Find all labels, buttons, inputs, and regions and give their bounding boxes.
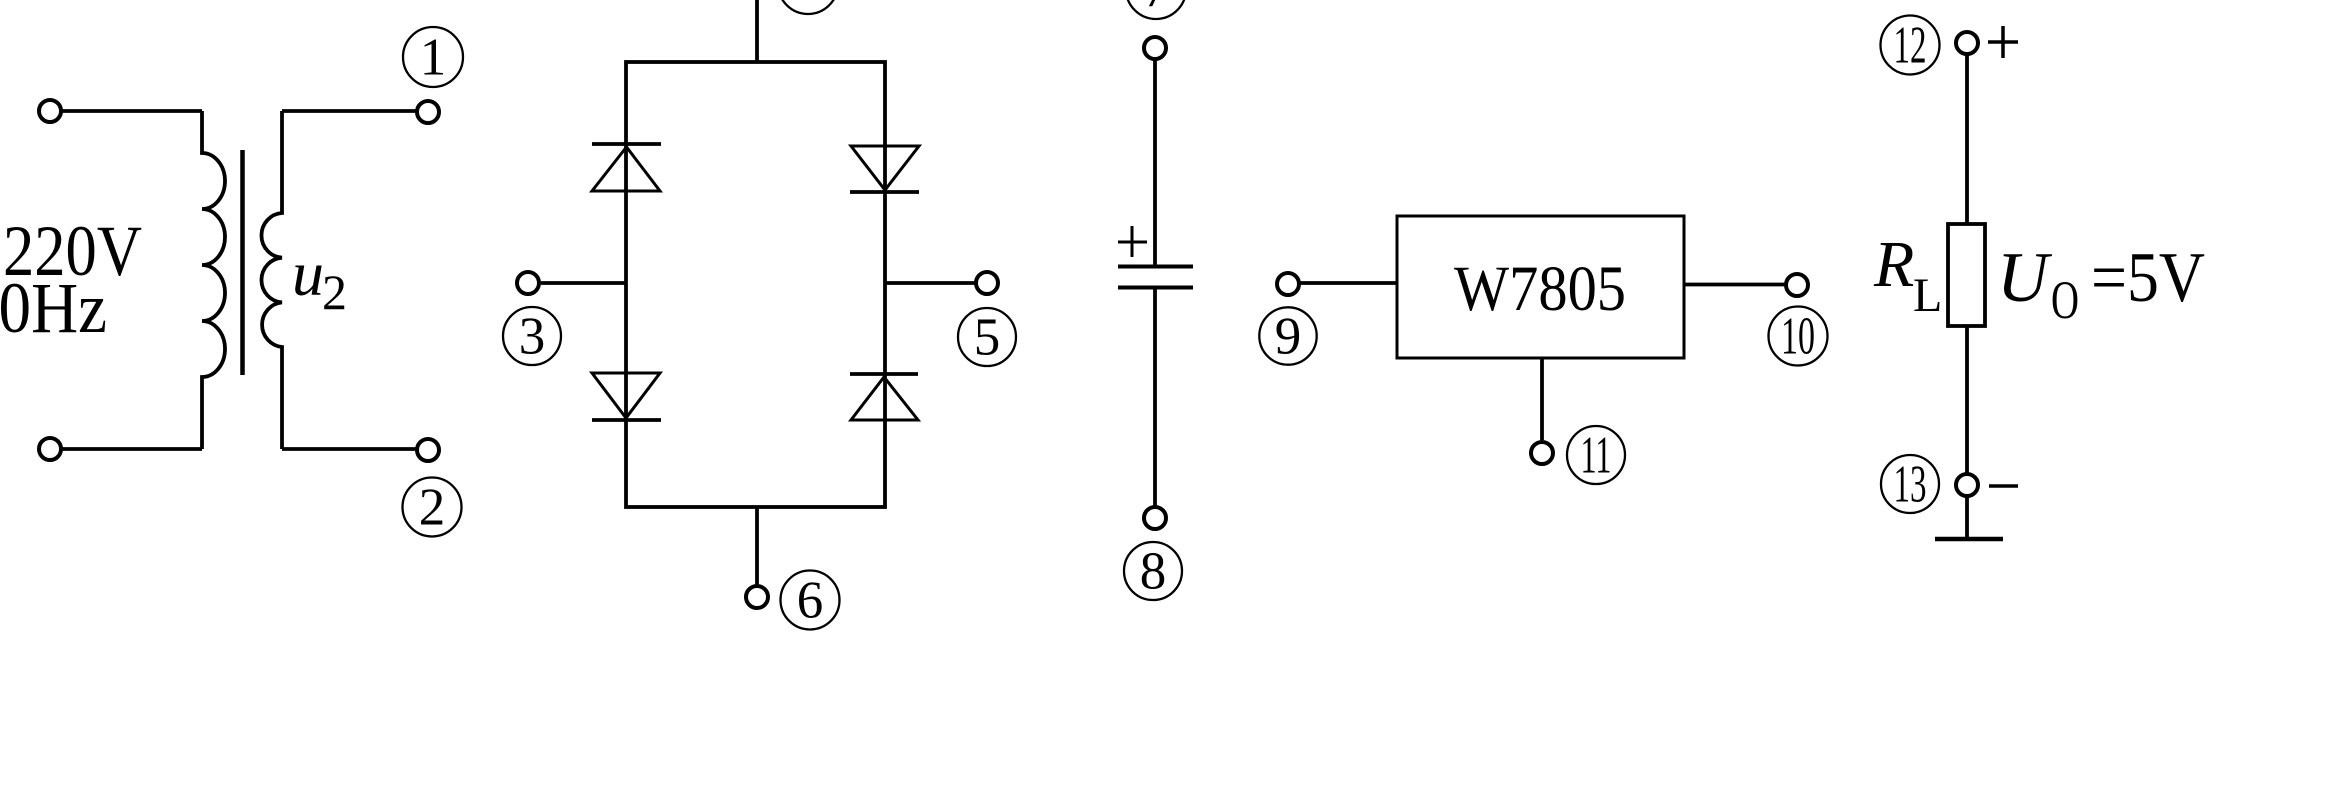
svg-text:2: 2 [322,264,347,320]
wire bridge top [755,0,759,62]
node label circled 4 (cut off at top) [778,0,838,14]
wire capacitor bottom [1153,288,1157,508]
svg-text:50Hz: 50Hz [0,268,107,348]
minus label node 13 [1989,484,2018,488]
wire regulator output [1684,283,1786,287]
node label circled 3 [503,307,561,366]
terminal 2 [417,439,439,461]
terminal 12 [1956,32,1978,54]
svg-text:7: 7 [1143,0,1170,19]
transformer T core [240,150,245,375]
capacitor C plates [1118,267,1193,288]
node label circled 10 [1769,307,1828,366]
node label circled 7 (cut off at top) [1126,0,1186,19]
svg-text:13: 13 [1894,456,1927,514]
svg-text:3: 3 [519,308,546,366]
bridge rectifier outline [626,62,885,507]
svg-text:R: R [1873,228,1914,301]
node label circled 2 [403,478,462,537]
wire regulator input [1299,281,1397,285]
wire capacitor top [1153,59,1157,265]
terminal 11 [1531,442,1553,464]
diode D3 bottom-left [592,373,661,420]
wire load bottom [1965,326,1969,474]
wire regulator ground pin [1540,358,1544,440]
terminal 13 [1956,474,1978,496]
node label circled 13 [1881,455,1939,514]
transformer T primary winding [202,111,225,449]
label RL [1873,228,1942,322]
node label circled 8 [1124,542,1182,601]
terminal 3 [517,272,539,294]
terminal primary bottom [39,438,61,460]
capacitor C plus label [1118,226,1147,257]
terminal 9 [1277,273,1299,295]
wire node 3 [541,281,626,285]
terminal 6 [746,586,768,608]
terminal 5 [976,272,998,294]
diode D4 bottom-right [850,374,918,420]
svg-text:O: O [2051,270,2079,330]
node label circled 9 [1259,307,1316,365]
svg-text:12: 12 [1894,17,1927,75]
label u2 [292,238,347,320]
svg-text:10: 10 [1781,308,1815,366]
wire node 6 [755,507,759,586]
ground [1935,537,2003,542]
resistor RL body [1948,224,1985,326]
svg-text:=5V: =5V [2091,239,2205,317]
svg-text:2: 2 [419,479,446,537]
diode D2 top-right [850,146,919,192]
svg-text:6: 6 [797,572,824,630]
node label circled 5 [958,308,1016,367]
terminal 1 [417,101,439,123]
transformer T secondary winding [261,111,282,449]
wire to ground [1965,496,1969,539]
svg-text:U: U [1997,239,2053,317]
terminal 8 [1144,507,1166,529]
regulator U1 W7805 [1397,216,1684,358]
node label circled 11 [1567,426,1625,485]
svg-text:1: 1 [420,29,447,87]
diode D1 top-left [592,144,661,191]
label 220V 50Hz [0,211,142,348]
svg-text:5: 5 [974,309,1001,367]
node label circled 12 [1881,16,1940,75]
terminal primary top [39,100,61,122]
wire secondary top [282,109,417,113]
node label circled 1 [403,27,463,87]
wire load top [1965,54,1969,224]
label UO=5V [1997,239,2205,330]
plus label node 12 [1988,26,2018,58]
wire secondary bottom [282,447,417,451]
svg-text:11: 11 [1581,427,1612,485]
svg-text:L: L [1913,269,1942,322]
wire node 5 [885,281,976,285]
terminal 10 [1786,274,1808,296]
terminal 7 [1144,37,1166,59]
svg-text:9: 9 [1275,308,1302,366]
node label circled 6 [781,571,840,630]
svg-text:W7805: W7805 [1454,253,1626,325]
wire primary top [61,109,202,113]
wire primary bottom [61,447,202,451]
svg-text:8: 8 [1140,543,1167,601]
svg-text:u: u [292,238,324,309]
